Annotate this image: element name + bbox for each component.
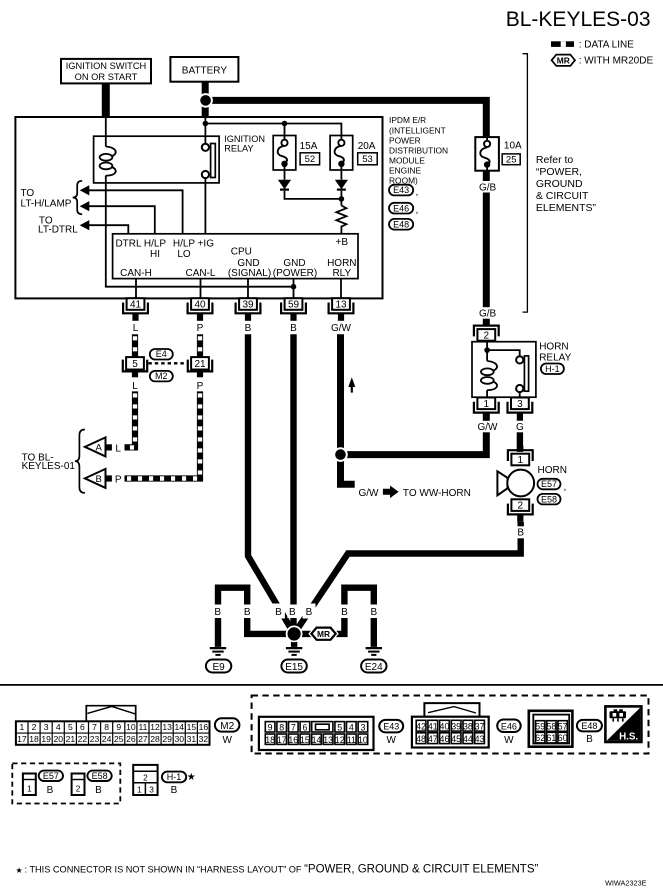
connector M2 grid: [16, 721, 210, 745]
battery box: [170, 57, 238, 82]
svg-text:RELAY: RELAY: [224, 144, 253, 154]
svg-text:HI: HI: [150, 249, 160, 260]
wire B from pin39 to ground junction: [248, 334, 294, 634]
svg-text:37: 37: [475, 721, 485, 731]
svg-text:22: 22: [78, 734, 88, 744]
connector E43: [259, 717, 374, 750]
IPDM pin 39: [239, 298, 257, 310]
svg-text:L: L: [115, 443, 121, 454]
svg-text:(SIGNAL): (SIGNAL): [228, 268, 271, 279]
wire DTRL output: [89, 225, 129, 234]
svg-text:28: 28: [150, 734, 160, 744]
svg-text:2: 2: [32, 722, 37, 732]
oval E24: [361, 660, 386, 673]
dashed connector link E4-M2: [148, 362, 187, 364]
svg-text:9: 9: [268, 722, 273, 732]
connector M2 pin 5: [126, 357, 144, 369]
svg-text:3: 3: [517, 399, 523, 410]
wire G from relay pin3 to horn: [517, 420, 523, 452]
svg-text:H.S.: H.S.: [619, 731, 638, 742]
oval H-1 bottom: [162, 772, 186, 783]
wire ignition inside IPDM: [105, 117, 107, 147]
wire B from pin59 to ground junction: [290, 334, 296, 634]
svg-text:17: 17: [277, 735, 287, 745]
IPDM pin 40: [191, 298, 209, 310]
connector M2 pin 21: [191, 357, 209, 369]
svg-text:B: B: [290, 323, 297, 334]
arrow to LT-H/LAMP 2: [80, 201, 90, 211]
svg-text:59: 59: [288, 300, 300, 311]
svg-text:3: 3: [149, 785, 154, 795]
svg-text:H-1: H-1: [167, 772, 182, 782]
svg-text:IPDM E/R: IPDM E/R: [389, 115, 426, 125]
wire to relay contact: [487, 350, 520, 356]
separator line: [0, 684, 663, 686]
oval E57: [538, 479, 561, 490]
svg-text:15A: 15A: [300, 141, 318, 152]
fuse 20A: [330, 136, 353, 171]
wire P data line pin40 to connector M2-21: [197, 334, 203, 357]
wire battery feed: [202, 82, 209, 117]
svg-text:(INTELLIGENT: (INTELLIGENT: [389, 125, 446, 135]
svg-text:8: 8: [104, 722, 109, 732]
horn relay box: [472, 342, 536, 398]
svg-text:44: 44: [463, 734, 473, 744]
svg-text:BL-KEYLES-03: BL-KEYLES-03: [506, 8, 651, 31]
svg-text:40: 40: [194, 300, 206, 311]
svg-text:2: 2: [76, 784, 81, 794]
svg-text:E58: E58: [92, 771, 108, 781]
svg-text:M2: M2: [220, 721, 234, 732]
wire L data line pin41 to connector M2-5: [132, 334, 138, 357]
svg-text:4: 4: [349, 722, 354, 732]
label 53 box: [358, 153, 378, 165]
svg-text:KEYLES-01: KEYLES-01: [22, 461, 76, 472]
svg-text:4: 4: [56, 722, 61, 732]
wire 20A fuse to diode: [340, 170, 342, 180]
wire junction to horn relay pin1: [341, 413, 487, 455]
svg-text:E24: E24: [365, 662, 383, 673]
svg-text:1: 1: [27, 784, 32, 794]
IPDM side label: [389, 115, 448, 185]
svg-text:13: 13: [162, 722, 172, 732]
wire pin2 into relay: [486, 342, 488, 361]
oval E9: [206, 660, 231, 673]
svg-text:ENGINE: ENGINE: [389, 165, 422, 175]
dashed IPDM connector group box: [252, 696, 649, 754]
svg-text:53: 53: [362, 154, 373, 165]
legend MR hexagon: [552, 55, 575, 66]
svg-text:M2: M2: [155, 371, 168, 381]
bracket refer: [523, 54, 528, 312]
svg-text:9: 9: [116, 722, 121, 732]
svg-text:61: 61: [547, 733, 557, 743]
svg-text:E57: E57: [43, 771, 59, 781]
horn relay contact: [516, 356, 529, 392]
wires CPU to output pins: [136, 279, 341, 299]
brace LT-H/LAMP: [73, 181, 83, 215]
svg-text:14: 14: [312, 735, 322, 745]
fuse 10A: [475, 137, 499, 171]
horn relay pin 3: [511, 398, 529, 410]
svg-text:39: 39: [242, 300, 254, 311]
triangle B: [85, 469, 106, 488]
svg-text:16: 16: [288, 735, 298, 745]
svg-text:E9: E9: [212, 662, 225, 673]
svg-text:12: 12: [150, 722, 160, 732]
IPDM pin 59: [285, 298, 303, 310]
svg-text:: DATA LINE: : DATA LINE: [579, 39, 635, 50]
IPDM pin 13: [332, 298, 350, 310]
svg-text:LO: LO: [177, 249, 191, 260]
svg-text:21: 21: [194, 359, 206, 370]
svg-text:E43: E43: [383, 722, 399, 732]
svg-text:LT-DTRL: LT-DTRL: [38, 225, 78, 236]
svg-text:5: 5: [68, 722, 73, 732]
oval E15: [281, 660, 306, 673]
svg-text:ELEMENTS”: ELEMENTS”: [536, 202, 597, 214]
svg-text:23: 23: [90, 734, 100, 744]
svg-text:2: 2: [143, 772, 148, 782]
label G/W under pin1: [477, 421, 498, 433]
svg-text:E46: E46: [393, 203, 409, 213]
svg-text:E57: E57: [541, 479, 557, 489]
diode under 15A: [278, 180, 291, 190]
svg-text:27: 27: [138, 734, 148, 744]
svg-text:B: B: [289, 607, 296, 618]
svg-text:58: 58: [547, 722, 557, 732]
svg-text:DISTRIBUTION: DISTRIBUTION: [389, 145, 448, 155]
svg-text:IGNITION: IGNITION: [224, 134, 265, 144]
wire ignition switch feed: [102, 83, 110, 117]
ground E15 symbol: [286, 648, 302, 655]
svg-text:HORN: HORN: [538, 465, 567, 476]
svg-text:12: 12: [335, 735, 345, 745]
svg-text:18: 18: [29, 734, 39, 744]
svg-text:IGNITION SWITCH: IGNITION SWITCH: [66, 61, 147, 71]
oval E48 side: [389, 219, 413, 230]
connector E48: [529, 711, 573, 747]
dashed horn connector group box: [12, 763, 120, 803]
svg-text:16: 16: [199, 722, 209, 732]
svg-text:CAN-H: CAN-H: [120, 268, 152, 279]
svg-text:,: ,: [416, 205, 419, 216]
svg-text:10A: 10A: [504, 141, 522, 152]
ignition switch box: [61, 59, 151, 84]
svg-text:HORN: HORN: [539, 341, 568, 352]
svg-text:,: ,: [564, 482, 567, 493]
horn body: [507, 470, 534, 497]
svg-text:BATTERY: BATTERY: [182, 65, 228, 76]
svg-text:B: B: [370, 607, 377, 618]
svg-text:G/W: G/W: [478, 422, 499, 433]
svg-text:B: B: [517, 528, 524, 539]
horn trumpet: [497, 471, 507, 495]
svg-text:E4: E4: [156, 349, 167, 359]
label B on horn wire: [515, 526, 527, 538]
oval E57 bottom: [39, 771, 63, 781]
svg-text:60: 60: [558, 733, 568, 743]
node bus-15A junction: [282, 121, 288, 127]
svg-text:15: 15: [187, 722, 197, 732]
wire right ground branch to E24: [294, 588, 374, 647]
svg-text:★: ★: [16, 866, 23, 875]
svg-text:: WITH MR20DE: : WITH MR20DE: [579, 56, 654, 67]
svg-text:LT-H/LAMP: LT-H/LAMP: [21, 198, 72, 209]
svg-text:19: 19: [41, 734, 51, 744]
svg-text:47: 47: [428, 734, 438, 744]
svg-text:5: 5: [337, 722, 342, 732]
svg-text:B: B: [306, 607, 313, 618]
label 25 box: [502, 154, 520, 165]
svg-text:B: B: [95, 785, 102, 796]
svg-text:+IG: +IG: [198, 238, 215, 249]
svg-text:6: 6: [80, 722, 85, 732]
svg-text:59: 59: [535, 722, 545, 732]
svg-text:31: 31: [187, 734, 197, 744]
label G under pin3: [514, 421, 526, 433]
wire diode to +B junction: [285, 191, 342, 199]
svg-text:41: 41: [428, 721, 438, 731]
triangle A: [85, 437, 106, 456]
svg-text:Refer to: Refer to: [536, 154, 574, 166]
oval M2: [150, 371, 173, 382]
svg-text:32: 32: [199, 734, 209, 744]
horn pin 2: [511, 499, 529, 511]
svg-text:MODULE: MODULE: [389, 155, 425, 165]
ignition relay contact: [202, 144, 216, 179]
ignition relay coil: [100, 147, 116, 183]
svg-text:G/B: G/B: [479, 308, 497, 319]
svg-text:6: 6: [302, 722, 307, 732]
svg-text:3: 3: [44, 722, 49, 732]
svg-text:57: 57: [558, 722, 568, 732]
node bus-battery junction: [203, 121, 209, 127]
svg-text:52: 52: [305, 154, 316, 165]
svg-text:13: 13: [335, 300, 347, 311]
svg-text:CAN-L: CAN-L: [185, 268, 215, 279]
horn pin 1: [511, 454, 529, 466]
svg-text:48: 48: [416, 734, 426, 744]
svg-text:1: 1: [137, 785, 142, 795]
arrow to LT-H/LAMP 1: [80, 185, 90, 195]
oval M2 bottom: [215, 718, 240, 731]
svg-text:62: 62: [535, 733, 545, 743]
svg-text:B: B: [214, 607, 221, 618]
horn relay coil: [481, 361, 497, 397]
block arrow TO WW-HORN: [383, 486, 399, 499]
svg-text:B: B: [96, 474, 102, 485]
svg-text:7: 7: [92, 722, 97, 732]
svg-text:8: 8: [279, 722, 284, 732]
svg-text:E46: E46: [501, 721, 517, 731]
oval E58 bottom: [87, 771, 111, 781]
svg-text:(POWER): (POWER): [273, 268, 317, 279]
connector E58 cell: [72, 774, 85, 796]
svg-text:B: B: [245, 323, 252, 334]
svg-text:B: B: [244, 607, 251, 618]
svg-text:43: 43: [475, 734, 485, 744]
svg-text:17: 17: [17, 734, 27, 744]
svg-text:GROUND: GROUND: [536, 178, 583, 190]
svg-text:P: P: [115, 474, 122, 485]
svg-text:W: W: [386, 735, 396, 746]
svg-text:21: 21: [66, 734, 76, 744]
wire relay contact to +IG: [204, 178, 206, 234]
svg-text:10: 10: [126, 722, 136, 732]
svg-text:1: 1: [20, 722, 25, 732]
ignition relay box: [94, 136, 220, 183]
label G/B upper (on wire): [477, 181, 498, 193]
svg-text:G/W: G/W: [331, 323, 352, 334]
wire G/W from pin13: [337, 334, 344, 454]
wire P data line to arrow B: [125, 391, 201, 478]
CPU box: [113, 234, 358, 279]
svg-text:25: 25: [114, 734, 124, 744]
svg-text:29: 29: [162, 734, 172, 744]
svg-text:RELAY: RELAY: [539, 352, 571, 363]
direction arrow up on G/W: [348, 377, 355, 392]
svg-text:1: 1: [484, 399, 490, 410]
IPDM pin 41: [127, 298, 145, 310]
wire internal bus: [205, 124, 341, 136]
svg-text:,: ,: [416, 187, 419, 198]
svg-text:P: P: [197, 323, 204, 334]
oval E46 bottom: [497, 720, 521, 733]
connector E46: [412, 717, 489, 748]
label 52 box: [300, 153, 320, 165]
wire E15 stub: [291, 634, 297, 647]
svg-text:MR: MR: [557, 55, 570, 65]
oval E43 bottom: [379, 720, 403, 733]
ground E24 symbol: [366, 648, 382, 655]
svg-text:H-1: H-1: [545, 364, 560, 374]
svg-text:2: 2: [484, 331, 490, 342]
svg-text:E48: E48: [581, 721, 597, 731]
svg-text:25: 25: [506, 155, 517, 166]
svg-text:+B: +B: [336, 237, 349, 248]
resistor to +B: [336, 206, 346, 234]
svg-text:CPU: CPU: [231, 247, 252, 258]
ground E9 symbol: [210, 648, 226, 655]
svg-text:B: B: [275, 607, 282, 618]
H.S. emblem: [605, 706, 641, 742]
svg-text:W: W: [504, 735, 514, 746]
oval E4: [150, 349, 173, 360]
svg-text:H/LP: H/LP: [144, 238, 167, 249]
MR hexagon at ground: [309, 626, 337, 641]
svg-text:POWER: POWER: [389, 135, 421, 145]
wire H/LP LO output: [89, 190, 183, 234]
arrow A stub: [106, 444, 112, 450]
wire left ground branch to E9: [218, 588, 294, 647]
svg-text:26: 26: [126, 734, 136, 744]
svg-text:P: P: [197, 381, 204, 392]
legend data-line symbol: [551, 41, 574, 47]
wire G/B 10A fuse to horn relay pin2: [483, 171, 490, 326]
M2 connector tab: [86, 706, 135, 722]
svg-text:W: W: [222, 735, 232, 746]
svg-text:14: 14: [174, 722, 184, 732]
svg-text:46: 46: [440, 734, 450, 744]
svg-text:E58: E58: [541, 494, 557, 504]
svg-text:40: 40: [440, 721, 450, 731]
oval E58: [538, 494, 561, 505]
node +B junction: [340, 191, 342, 206]
svg-text:18: 18: [265, 735, 275, 745]
svg-text:B: B: [47, 785, 54, 796]
svg-text:7: 7: [291, 722, 296, 732]
svg-text:24: 24: [102, 734, 112, 744]
svg-text:G/W: G/W: [359, 488, 380, 499]
B labels at ground junction: [213, 605, 223, 619]
svg-text:G/B: G/B: [479, 183, 497, 194]
connector E57 cell: [23, 774, 36, 796]
svg-text:20A: 20A: [358, 141, 376, 152]
fuse 15A: [273, 136, 296, 171]
label G/B lower (on wire): [477, 307, 498, 319]
wire battery bus to 10A fuse: [205, 100, 486, 137]
svg-text:B: B: [586, 734, 593, 745]
wire battery inside IPDM: [204, 117, 206, 144]
oval E43 side: [389, 185, 413, 196]
svg-text:13: 13: [323, 735, 333, 745]
connector H-1: [133, 765, 157, 795]
svg-text:2: 2: [518, 501, 524, 512]
svg-text:42: 42: [416, 721, 426, 731]
svg-text:G: G: [516, 422, 524, 433]
svg-text:B: B: [341, 607, 348, 618]
label refer to power ground: [536, 154, 597, 214]
svg-text:11: 11: [347, 735, 356, 745]
svg-text:E48: E48: [393, 219, 409, 229]
svg-text:20: 20: [53, 734, 63, 744]
node ground junction: [287, 626, 302, 641]
svg-text:: THIS CONNECTOR IS NOT SHOWN: : THIS CONNECTOR IS NOT SHOWN IN “HARNES…: [25, 863, 539, 875]
IPDM E/R box: [15, 117, 382, 298]
svg-text:WIWA2323E: WIWA2323E: [605, 879, 647, 888]
svg-text:41: 41: [130, 300, 142, 311]
node horn relay junction: [484, 347, 490, 353]
wire relay coil return to GND(POWER): [106, 183, 294, 287]
oval H-1: [541, 364, 564, 375]
oval E46 side: [389, 203, 413, 214]
wire stub to WW-HORN: [341, 455, 355, 485]
svg-text:B: B: [171, 785, 178, 796]
svg-text:H/LP: H/LP: [173, 238, 196, 249]
svg-text:38: 38: [463, 721, 473, 731]
svg-text:1: 1: [518, 455, 524, 466]
horn relay pin 2: [477, 329, 495, 341]
arrow to LT-DTRL: [80, 220, 90, 230]
node battery junction: [199, 94, 212, 107]
CPU pin labels: [115, 237, 356, 279]
svg-text:39: 39: [451, 721, 461, 731]
svg-text:MR: MR: [317, 629, 330, 639]
svg-text:11: 11: [138, 722, 147, 732]
svg-text:L: L: [132, 381, 138, 392]
wire contact to pin3: [519, 392, 521, 397]
svg-text:15: 15: [300, 735, 310, 745]
svg-text:45: 45: [451, 734, 461, 744]
svg-text:★: ★: [187, 772, 196, 783]
arrow B stub: [106, 475, 112, 481]
svg-text:L: L: [133, 323, 139, 334]
node G/W junction: [334, 448, 347, 461]
svg-text:3: 3: [360, 722, 365, 732]
svg-text:RLY: RLY: [332, 268, 351, 279]
svg-text:5: 5: [132, 359, 138, 370]
